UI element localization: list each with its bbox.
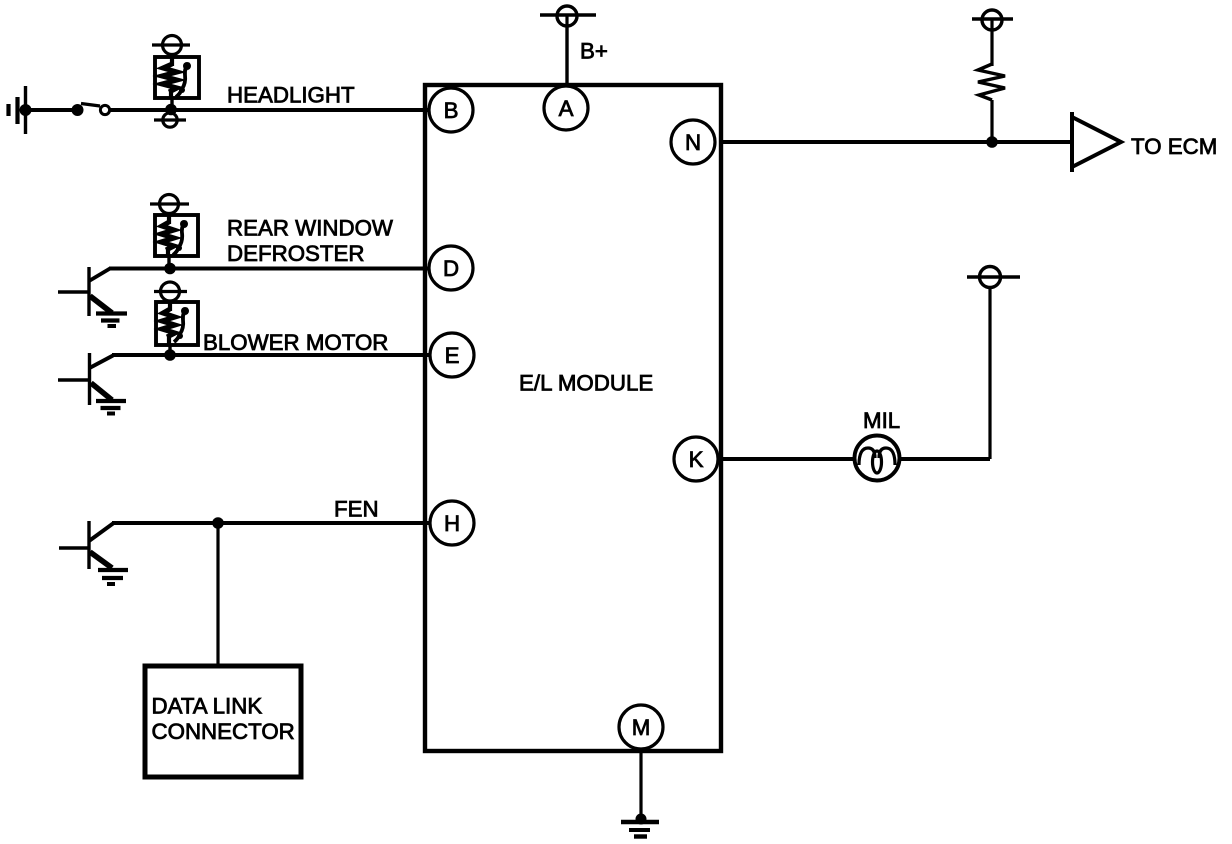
- circuit breaker CB3 (blower motor): [156, 302, 198, 345]
- svg-text:E/L MODULE: E/L MODULE: [519, 371, 653, 396]
- pin H: [430, 501, 474, 545]
- transistor Q2 (blower motor driver): [58, 353, 113, 405]
- junction dot (M ground): [636, 814, 647, 825]
- pin B: [429, 88, 473, 132]
- circuit breaker CB1 (headlight): [155, 57, 199, 98]
- wire: pin M to ground: [639, 751, 642, 818]
- pin E: [430, 333, 474, 377]
- svg-text:D: D: [443, 256, 459, 281]
- circuit breaker CB1 (headlight) terminal above: [152, 36, 190, 59]
- circuit breaker CB2 (rear window defroster) terminal above: [150, 195, 189, 217]
- ground G1 (rotated, left end of headlight line): [9, 86, 32, 134]
- B+ terminal: [540, 6, 596, 26]
- svg-text:HEADLIGHT: HEADLIGHT: [227, 83, 355, 108]
- pin D: [429, 246, 473, 290]
- svg-text:BLOWER MOTOR: BLOWER MOTOR: [203, 330, 388, 355]
- svg-text:A: A: [559, 96, 574, 121]
- wire: CB3 to blower line: [168, 345, 171, 355]
- junction dot (N wire / resistor drop): [986, 136, 998, 148]
- svg-text:FEN: FEN: [334, 497, 379, 522]
- wire: ground to headlight switch: [25, 108, 72, 112]
- svg-text:M: M: [632, 715, 651, 740]
- svg-text:TO ECM: TO ECM: [1131, 134, 1217, 159]
- svg-text:REAR WINDOW: REAR WINDOW: [227, 216, 393, 241]
- wire: CB1 to headlight line: [170, 98, 173, 110]
- terminal below headlight wire: [154, 113, 186, 127]
- pin A: [544, 86, 588, 130]
- wire: CB2 to defroster line: [167, 256, 170, 269]
- buffer symbol (to ECM): [1072, 112, 1121, 172]
- junction dot (CB2 / defroster wire): [164, 263, 176, 275]
- junction dot (CB3 / blower wire): [164, 349, 176, 361]
- wire: resistor R1 to N wire: [990, 100, 993, 142]
- wire: pin N to ECM buffer: [721, 140, 1072, 144]
- transistor Q3 (FEN driver): [59, 521, 113, 569]
- wire: corner up to MIL terminal: [988, 288, 991, 459]
- svg-text:H: H: [444, 511, 460, 536]
- svg-text:DATA LINK: DATA LINK: [152, 694, 263, 719]
- svg-text:E: E: [445, 343, 460, 368]
- svg-text:N: N: [685, 130, 701, 155]
- E/L module box: [425, 85, 721, 751]
- transistor Q1 (rear window defroster driver): [58, 267, 112, 316]
- junction dot (FEN wire / data link connector drop): [212, 517, 224, 529]
- terminal above MIL: [967, 267, 1020, 288]
- svg-text:B+: B+: [580, 39, 608, 64]
- svg-text:DEFROSTER: DEFROSTER: [227, 241, 365, 266]
- switch S1 (headlight switch): [72, 104, 110, 117]
- pin M: [619, 705, 663, 749]
- terminal above resistor R1: [972, 10, 1013, 30]
- svg-text:K: K: [689, 447, 704, 472]
- wire: switch to module pin B (HEADLIGHT line): [110, 108, 430, 112]
- wire: transistor Q1 to module pin D (defroster line): [109, 267, 430, 271]
- ground (Q3 emitter): [98, 570, 128, 584]
- svg-text:B: B: [444, 98, 459, 123]
- wire: FEN line down to data link connector: [216, 523, 219, 665]
- wire: pin K to MIL lamp corner: [723, 457, 990, 461]
- data link connector box: [145, 666, 301, 777]
- ground (module pin M): [621, 822, 659, 837]
- lamp MIL: [855, 436, 900, 481]
- circuit breaker CB2 (rear window defroster): [155, 215, 198, 256]
- ground (Q2 emitter): [96, 401, 126, 414]
- pin N: [671, 120, 715, 164]
- svg-text:MIL: MIL: [863, 408, 900, 433]
- junction dot (CB1 / headlight wire): [165, 104, 177, 116]
- circuit breaker CB3 (blower motor) terminal above: [154, 282, 187, 303]
- pin K: [674, 437, 718, 481]
- wire: B+ terminal to pin A: [565, 26, 568, 87]
- resistor R1: [978, 64, 1005, 100]
- svg-text:CONNECTOR: CONNECTOR: [152, 719, 295, 744]
- wire: transistor Q3 to module pin H (FEN line): [112, 521, 430, 525]
- wire: transistor Q2 to module pin E (blower line): [112, 353, 430, 357]
- ground (Q1 emitter): [96, 314, 127, 327]
- wire: terminal to resistor R1: [990, 30, 993, 66]
